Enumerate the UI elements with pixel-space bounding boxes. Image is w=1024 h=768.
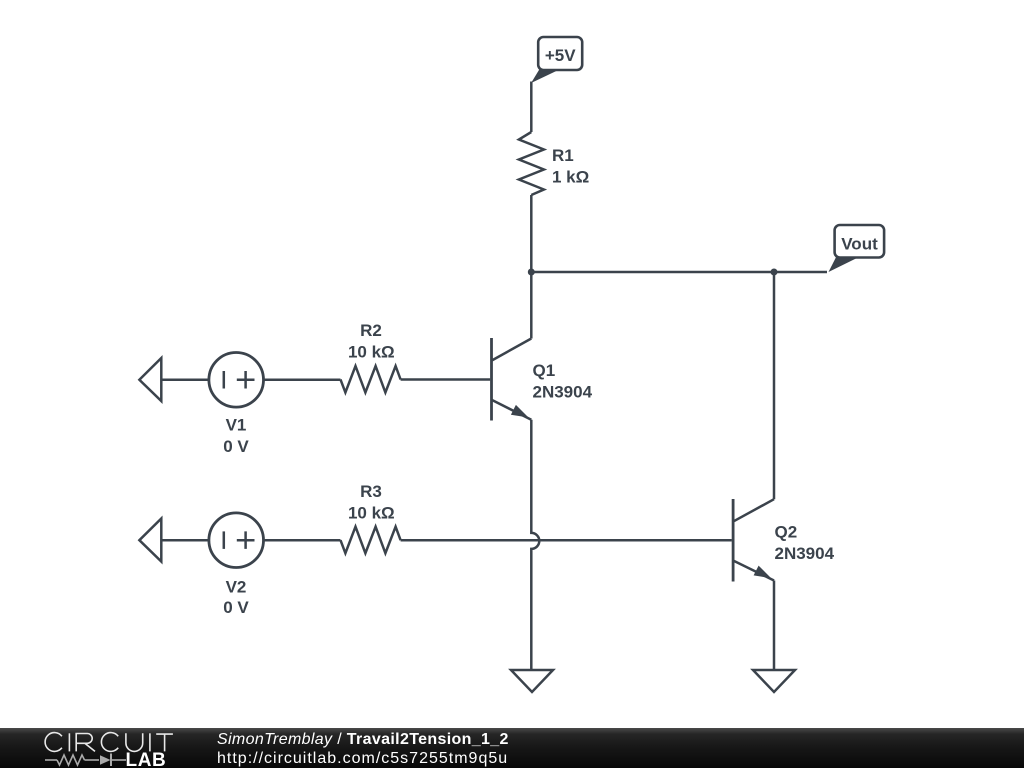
attribution line	[217, 731, 509, 749]
svg-text:V2: V2	[226, 577, 247, 596]
wire R1 to node A	[530, 195, 533, 272]
wire V1 to R2	[264, 379, 341, 382]
wire node A to Vout (net Vout)	[531, 271, 827, 274]
junction dot node B	[771, 269, 778, 276]
ground (below Q2)	[753, 670, 795, 692]
transistor Q1	[492, 338, 532, 421]
wire Q2 emitter to ground	[773, 581, 776, 671]
url line	[217, 750, 508, 768]
svg-text:10 kΩ: 10 kΩ	[348, 343, 395, 362]
ground (below Q1)	[511, 670, 553, 692]
input net flag (left, V1 row)	[139, 358, 161, 401]
input net flag (left, V2 row)	[139, 519, 161, 562]
resistor R2	[341, 366, 401, 393]
wire node B to Q2 collector	[773, 272, 776, 499]
svg-text:Vout: Vout	[841, 234, 878, 253]
svg-text:R1: R1	[552, 146, 574, 165]
wire +5V flag to R1	[530, 82, 533, 133]
svg-text:2N3904: 2N3904	[533, 382, 593, 401]
power flag +5V	[531, 37, 582, 83]
wire flag to V1	[161, 379, 209, 382]
wire flag to V2	[161, 539, 209, 542]
junction dot node A	[528, 269, 535, 276]
wire node A to Q1 collector	[530, 272, 533, 339]
wire R3 to Q2 base	[401, 539, 732, 542]
wire R2 to Q1 base	[401, 378, 491, 381]
wire V2 to R3	[264, 539, 341, 542]
net flag Vout	[829, 225, 885, 272]
svg-text:1 kΩ: 1 kΩ	[552, 168, 589, 187]
svg-text:R2: R2	[360, 321, 382, 340]
svg-text:10 kΩ: 10 kΩ	[348, 503, 395, 522]
svg-text:R3: R3	[360, 482, 382, 501]
transistor Q2	[733, 499, 774, 582]
svg-text:0 V: 0 V	[223, 598, 249, 617]
CircuitLab logo wordmark CIRCUIT	[0, 727, 210, 768]
svg-text:0 V: 0 V	[223, 437, 249, 456]
resistor R1	[519, 132, 544, 195]
svg-text:V1: V1	[226, 416, 247, 435]
resistor R3	[341, 527, 401, 554]
svg-text:Q2: Q2	[775, 522, 798, 541]
voltage source V2	[209, 513, 264, 568]
svg-text:Q1: Q1	[533, 361, 556, 380]
svg-text:2N3904: 2N3904	[775, 544, 835, 563]
svg-text:+5V: +5V	[545, 46, 576, 65]
bottom brand bar	[0, 728, 1024, 768]
wire Q1 emitter down with hop over R3 net	[531, 420, 539, 670]
logo resistor-diode squiggle	[45, 752, 129, 768]
voltage source V1	[209, 353, 264, 408]
